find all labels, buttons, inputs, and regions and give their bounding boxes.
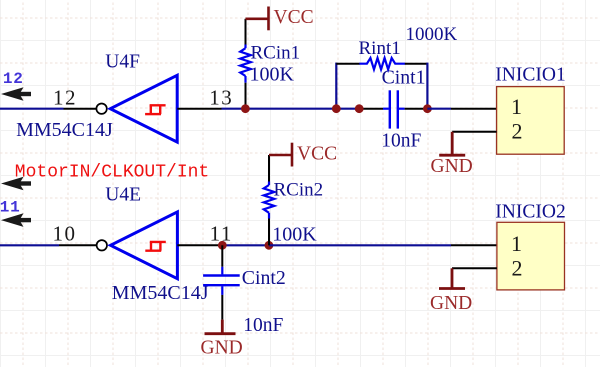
wire - node 11 segment [222, 244, 269, 246]
svg-text:GND: GND [430, 293, 472, 314]
wire - INICIO1 pin 1 [451, 108, 497, 110]
svg-text:RCin2: RCin2 [274, 180, 324, 201]
RCin1 top lead [244, 45, 246, 49]
wire - node 11 to Cint2 [221, 245, 223, 266]
svg-text:1: 1 [511, 231, 522, 256]
svg-text:100K: 100K [250, 64, 295, 86]
svg-text:U4F: U4F [105, 52, 140, 73]
svg-text:GND: GND [201, 338, 243, 359]
ground GND Cint2 [205, 320, 236, 334]
wire - node 11 to INICIO2 [269, 244, 451, 246]
svg-text:VCC: VCC [297, 143, 337, 164]
wire - U4E input pin [177, 244, 222, 246]
svg-text:INICIO2: INICIO2 [495, 201, 565, 222]
svg-text:1: 1 [511, 94, 522, 119]
wire - U4F input pin [177, 108, 221, 110]
svg-text:1000K: 1000K [406, 24, 458, 45]
wire - to INICIO1 [427, 108, 451, 110]
svg-text:10nF: 10nF [381, 131, 421, 152]
svg-text:MM54C14J: MM54C14J [112, 282, 209, 304]
resistor RCin1 [240, 48, 251, 76]
svg-text:10nF: 10nF [243, 315, 283, 336]
wire - VCC to RCin2 [268, 155, 270, 182]
junction RCin2 [265, 241, 274, 250]
svg-text:2: 2 [512, 255, 523, 280]
wire - U4F output pin [64, 108, 97, 110]
capacitor Cint2 top plate [203, 274, 240, 276]
RCin1 bottom lead [244, 76, 246, 83]
ground GND INICIO1 [439, 132, 465, 155]
svg-text:2: 2 [512, 119, 523, 144]
wire - net 11 to sheet edge [0, 244, 59, 246]
wire - U4E output pin [59, 244, 97, 246]
RCin2 bottom lead [268, 213, 270, 219]
svg-text:U4E: U4E [105, 184, 141, 205]
inverter gate U4F with Schmitt hysteresis symbol [96, 75, 177, 142]
capacitor Cint1 right plate [397, 90, 399, 128]
svg-text:Cint2: Cint2 [242, 267, 286, 289]
resistor Rint1 [359, 58, 405, 69]
junction node 13 [241, 104, 250, 113]
inverter gate U4E with Schmitt hysteresis symbol [97, 212, 178, 279]
wire - Rint1 left pin [336, 63, 360, 65]
Cint1 left lead [383, 108, 389, 110]
svg-text:Rint1: Rint1 [359, 38, 401, 59]
wire - INICIO1 pin 2 to GND [452, 131, 496, 133]
power VCC bottom [269, 143, 292, 167]
svg-text:INICIO1: INICIO1 [495, 65, 565, 86]
wire - RCin1 to node 13 [245, 83, 247, 109]
ground GND INICIO2 [439, 268, 465, 288]
wire - pin to node 13 [222, 108, 245, 110]
off-sheet arrow net 11 [1, 213, 31, 227]
wire - node 13 to Cint1 [245, 108, 359, 110]
RCin2 top lead [268, 182, 270, 186]
svg-text:13: 13 [209, 86, 233, 110]
wire - Cint2 to GND [221, 295, 223, 320]
wire - VCC to RCin1 [245, 19, 247, 45]
svg-text:12: 12 [3, 70, 24, 88]
wire - Cint1 left pin [359, 108, 383, 110]
svg-text:MotorIN/CLKOUT/Int: MotorIN/CLKOUT/Int [15, 163, 209, 183]
junction Rint1-Cint1 right [423, 104, 432, 113]
wire - net 12 to sheet edge [0, 108, 64, 110]
power VCC top [246, 7, 269, 31]
capacitor Cint2 bottom plate [203, 284, 240, 286]
svg-text:RCin1: RCin1 [251, 42, 301, 63]
Cint1 right lead [399, 108, 405, 110]
svg-text:12: 12 [53, 86, 77, 110]
svg-text:VCC: VCC [274, 7, 314, 28]
wire - RCin2 to node 11 [268, 219, 270, 246]
wire - INICIO2 pin 2 to GND [452, 267, 497, 269]
wire - INICIO2 pin 1 [451, 244, 497, 246]
svg-text:100K: 100K [272, 223, 317, 245]
wire - Cint1 right pin [405, 108, 428, 110]
connector INICIO2 [497, 222, 565, 290]
wire - Rint1 right pin [405, 63, 428, 65]
wire - Rint1 right leg [426, 63, 428, 109]
svg-text:11: 11 [0, 198, 21, 216]
resistor RCin2 [264, 185, 275, 213]
off-sheet arrow MotorIN [1, 177, 31, 191]
svg-text:10: 10 [53, 221, 77, 245]
junction node 11 [218, 241, 227, 250]
junction Cint1 left [355, 104, 364, 113]
capacitor Cint1 left plate [389, 90, 391, 128]
Cint2 bottom lead [221, 286, 223, 295]
junction Rint1 left [332, 104, 341, 113]
svg-text:GND: GND [431, 156, 473, 177]
svg-text:MM54C14J: MM54C14J [16, 119, 113, 141]
svg-text:Cint1: Cint1 [382, 66, 426, 88]
Cint2 top lead [221, 267, 223, 275]
connector INICIO1 [497, 87, 565, 155]
off-sheet arrow net 12 [1, 87, 31, 101]
wire - Rint1 left leg [335, 63, 337, 109]
